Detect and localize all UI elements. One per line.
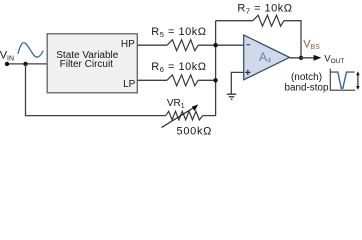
potentiometer VR1	[166, 111, 203, 120]
svg-text:VOUT: VOUT	[324, 53, 344, 65]
node summing junction	[213, 43, 217, 47]
op-amp non-inverting input marker	[245, 70, 250, 75]
svg-text:VR1: VR1	[167, 98, 185, 110]
AC source sine symbol	[18, 43, 43, 58]
svg-text:LP: LP	[123, 79, 136, 90]
wire	[231, 72, 243, 94]
wire	[7, 63, 47, 65]
node LP junction	[213, 78, 217, 82]
svg-text:(notch): (notch)	[291, 72, 322, 83]
ground	[227, 94, 236, 99]
wire	[284, 21, 301, 58]
filter box	[47, 34, 137, 93]
node input junction	[23, 62, 27, 66]
svg-text:R6 = 10kΩ: R6 = 10kΩ	[151, 61, 206, 74]
node output junction	[299, 56, 303, 60]
potentiometer VR1 wiper arrow	[162, 108, 194, 128]
svg-text:500kΩ: 500kΩ	[177, 126, 213, 138]
svg-text:band-stop: band-stop	[285, 83, 329, 94]
svg-text:VBS: VBS	[303, 38, 320, 51]
output arrow	[314, 55, 322, 61]
wire	[216, 20, 253, 22]
wire	[198, 44, 244, 46]
gain double arrow	[357, 75, 359, 87]
wire	[137, 79, 167, 81]
svg-text:Filter Circuit: Filter Circuit	[60, 59, 114, 70]
wire	[203, 21, 216, 116]
wire	[290, 57, 315, 59]
op-amp inverting input marker	[246, 44, 250, 46]
resistor R7	[253, 15, 284, 26]
resistor R6	[167, 75, 198, 86]
svg-text:R5 = 10kΩ: R5 = 10kΩ	[151, 26, 206, 39]
wire	[198, 79, 216, 81]
resistor R5	[167, 40, 198, 51]
svg-text:R7 = 10kΩ: R7 = 10kΩ	[237, 2, 292, 15]
op-amp A4	[244, 35, 290, 80]
svg-text:VIN: VIN	[0, 50, 14, 63]
notch response waveform	[331, 72, 355, 88]
svg-text:HP: HP	[121, 39, 135, 50]
node VIN terminal	[5, 62, 9, 66]
notch response axes	[330, 69, 355, 90]
wire	[137, 44, 167, 46]
wire	[26, 64, 166, 116]
